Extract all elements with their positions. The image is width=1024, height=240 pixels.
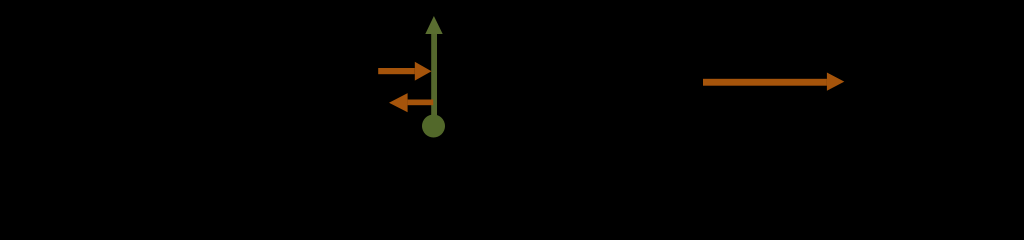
orange right arrow: [378, 62, 431, 81]
olive node circle: [422, 115, 445, 138]
long orange reaction arrow: [703, 73, 844, 91]
orange left arrow: [389, 93, 433, 112]
vertical olive arrow (up): [425, 16, 442, 120]
